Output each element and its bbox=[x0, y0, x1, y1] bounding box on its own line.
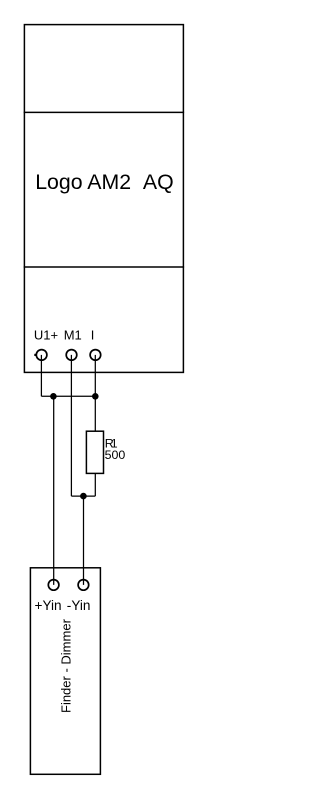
svg-text:+Yin: +Yin bbox=[35, 598, 62, 613]
svg-text:U1+: U1+ bbox=[34, 328, 58, 343]
svg-text:-Yin: -Yin bbox=[67, 598, 91, 613]
svg-text:Logo AM2 AQ: Logo AM2 AQ bbox=[35, 170, 174, 194]
svg-text:M1: M1 bbox=[64, 328, 82, 343]
svg-text:I: I bbox=[91, 328, 95, 343]
svg-text:Finder - Dimmer: Finder - Dimmer bbox=[58, 618, 73, 713]
svg-text:500: 500 bbox=[105, 448, 126, 462]
